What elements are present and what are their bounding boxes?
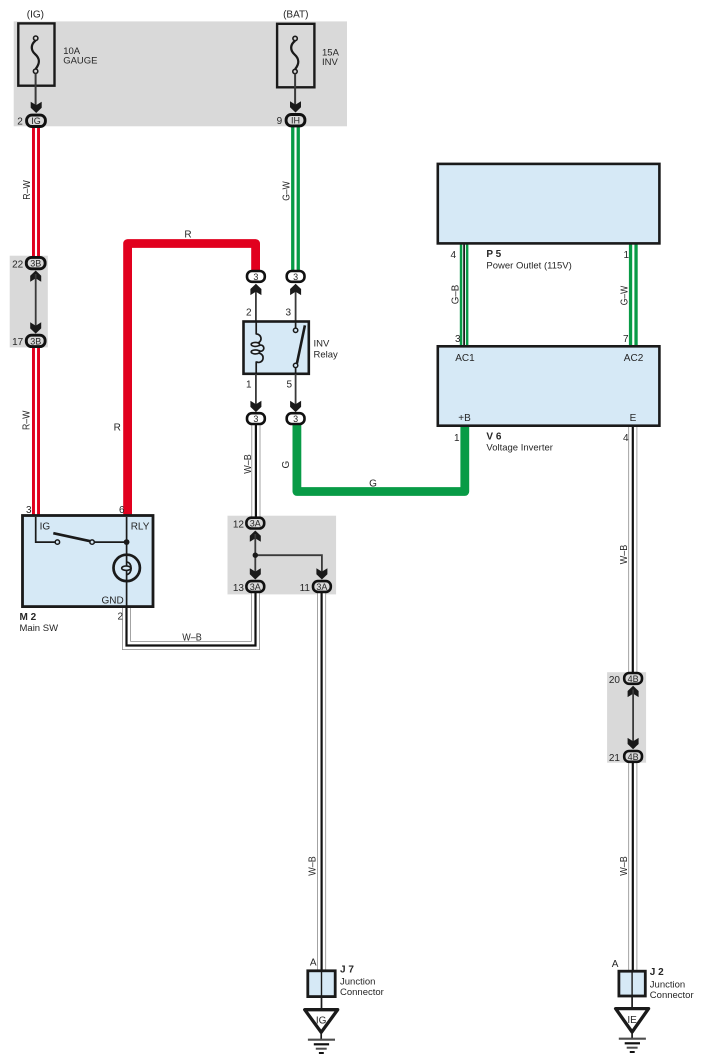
svg-text:Voltage Inverter: Voltage Inverter (486, 443, 553, 454)
wire W-B from connector 13 3A to Main SW pin 2 (127, 593, 256, 646)
svg-text:W–B: W–B (182, 632, 202, 643)
svg-text:(IG): (IG) (27, 10, 44, 21)
connector oval 9 IH (286, 115, 305, 126)
connector oval 20 4B (624, 673, 642, 684)
svg-text:6: 6 (119, 505, 125, 516)
svg-text:W–B: W–B (308, 856, 319, 876)
svg-text:3: 3 (455, 334, 461, 345)
svg-text:5: 5 (286, 380, 292, 391)
svg-text:A: A (310, 958, 317, 969)
connector oval 13 3A (246, 581, 264, 592)
svg-text:A: A (612, 959, 619, 970)
svg-text:G: G (369, 479, 377, 490)
arrowhead up below connector 20 (628, 686, 639, 697)
svg-text:1: 1 (454, 433, 460, 444)
arrowhead down into connector 17 (30, 322, 41, 333)
wire W-B from connector 11 3A down to junction connector J7 (317, 593, 326, 972)
svg-text:Main SW: Main SW (20, 623, 59, 634)
svg-text:3: 3 (293, 272, 298, 282)
svg-text:1: 1 (623, 250, 629, 261)
Main SW M2 box (23, 516, 154, 607)
arrowhead up below connector 22 (30, 271, 41, 282)
arrowhead up into connector 12 (250, 531, 261, 542)
svg-text:20: 20 (609, 675, 621, 686)
ground bars IG (320, 1032, 322, 1039)
svg-text:J 2: J 2 (650, 967, 664, 978)
junction connector J2 (619, 971, 645, 996)
relay U1 INV Relay box (244, 322, 309, 374)
svg-text:+B: +B (458, 413, 471, 424)
svg-text:2: 2 (117, 612, 123, 623)
gray connector box 4B (607, 672, 646, 763)
wire R thick from Main SW pin 6 to INV relay pin 2 connector (128, 244, 256, 517)
svg-text:(BAT): (BAT) (283, 10, 308, 21)
svg-text:G–B: G–B (450, 284, 461, 304)
svg-text:R–W: R–W (22, 180, 33, 200)
svg-text:J 7: J 7 (340, 965, 354, 976)
arrowhead down into connector 21 (628, 738, 639, 749)
connector oval 11 3A (313, 581, 331, 592)
svg-text:GAUGE: GAUGE (63, 56, 97, 67)
ground triangle IE (616, 1009, 649, 1032)
gray connector box 3B (10, 256, 48, 348)
svg-text:22: 22 (12, 259, 24, 270)
wire W-B from connector 21 4B down to junction connector J2 (628, 762, 637, 972)
svg-text:4B: 4B (628, 674, 639, 684)
lead J7 to ground (321, 997, 323, 1010)
wire W-B from INV relay pin 1 connector down to connector 12 3A (251, 424, 260, 517)
svg-text:E: E (630, 413, 637, 424)
svg-text:IG: IG (316, 1016, 327, 1027)
connector oval 3 above relay pin 2 (247, 271, 265, 282)
junction dot 3A (253, 553, 258, 558)
svg-text:4: 4 (450, 250, 456, 261)
connector oval 21 4B (624, 751, 642, 762)
wire R-W from fuse IG to connector 22 3B (32, 127, 40, 259)
svg-text:1: 1 (246, 380, 252, 391)
svg-text:21: 21 (609, 753, 621, 764)
arrowhead into connector IG (31, 102, 42, 113)
svg-text:G–W: G–W (281, 181, 292, 201)
relay coil (255, 323, 257, 335)
svg-text:3A: 3A (250, 519, 261, 529)
svg-text:7: 7 (623, 334, 629, 345)
svg-text:4B: 4B (628, 752, 639, 762)
connector oval 3 above relay pin 3 (287, 271, 305, 282)
junction dot (124, 539, 130, 545)
INV relay pin 3 lead and arrow (295, 287, 297, 322)
ground bars IE (631, 1032, 633, 1038)
svg-text:Junction: Junction (340, 976, 375, 987)
svg-text:IG: IG (31, 116, 41, 126)
connector oval 2 IG (27, 115, 46, 126)
svg-text:IG: IG (40, 522, 51, 533)
svg-text:R: R (114, 423, 121, 434)
svg-text:W–B: W–B (619, 856, 630, 876)
svg-text:12: 12 (233, 520, 245, 531)
wire R-W from connector 17 3B to Main SW pin 3 (32, 347, 40, 517)
arrowhead into connector IH (290, 101, 301, 112)
connector oval 3 below relay pin 1 (247, 413, 265, 424)
svg-text:INV: INV (322, 57, 339, 68)
svg-text:GND: GND (102, 595, 124, 606)
INV relay pin 5 lead and arrow (295, 374, 297, 407)
fuse F1 10A GAUGE (18, 23, 54, 85)
wire G thick from INV relay pin 5 connector to voltage inverter +B (297, 424, 465, 492)
svg-text:17: 17 (12, 337, 24, 348)
svg-text:3: 3 (26, 505, 32, 516)
lead from fuse F1 to connector IG (35, 73, 37, 107)
svg-text:3: 3 (285, 308, 291, 319)
wire G-B from power outlet pin 4 to voltage inverter AC1 pin 3 (460, 243, 469, 347)
lamp (114, 555, 140, 581)
gray connector box 3A (228, 516, 337, 595)
arrowhead down into connector 11 (316, 568, 327, 579)
svg-text:3: 3 (253, 272, 258, 282)
svg-text:AC1: AC1 (455, 353, 475, 364)
link line between 4B connectors (632, 690, 634, 745)
svg-text:3: 3 (253, 414, 258, 424)
svg-text:Connector: Connector (650, 990, 694, 1001)
svg-text:IE: IE (627, 1015, 637, 1026)
connector oval 17 3B (26, 335, 45, 346)
link line between 3B connectors (35, 274, 37, 329)
svg-text:3: 3 (293, 414, 298, 424)
svg-text:P 5: P 5 (486, 249, 501, 260)
svg-text:9: 9 (277, 116, 283, 127)
svg-text:W–B: W–B (619, 544, 630, 564)
svg-text:Junction: Junction (650, 980, 685, 991)
power outlet P5 box (438, 164, 660, 244)
svg-text:13: 13 (233, 583, 245, 594)
svg-text:W–B: W–B (243, 454, 254, 474)
svg-text:INV: INV (314, 339, 331, 350)
svg-text:Power Outlet (115V): Power Outlet (115V) (486, 260, 571, 271)
svg-text:3B: 3B (30, 336, 41, 346)
svg-text:2: 2 (17, 117, 23, 128)
svg-text:R: R (184, 230, 191, 241)
relay switch (295, 323, 297, 329)
arrowhead down into connector 13 (250, 568, 261, 579)
INV relay pin 1 lead and arrow (255, 374, 257, 407)
svg-text:G–W: G–W (619, 285, 630, 305)
gray harness band top (14, 21, 347, 126)
voltage inverter V6 box (438, 346, 660, 425)
junction connector J7 (308, 971, 335, 997)
lead J2 to ground (631, 996, 633, 1009)
svg-text:3A: 3A (316, 582, 327, 592)
svg-text:R–W: R–W (21, 410, 32, 430)
svg-text:G: G (281, 460, 292, 468)
svg-text:IH: IH (291, 116, 300, 126)
link lines 3A (255, 534, 322, 575)
svg-text:Relay: Relay (314, 350, 339, 361)
lead from fuse F2 to connector IH (294, 74, 296, 107)
switch internals (36, 517, 56, 542)
wire W-B from voltage inverter pin E down to connector 20 4B (628, 425, 637, 674)
svg-text:M 2: M 2 (20, 612, 37, 623)
fuse F2 15A INV (277, 24, 314, 88)
INV relay pin 2 lead and arrow (255, 287, 257, 322)
svg-text:RLY: RLY (131, 522, 150, 533)
svg-text:V 6: V 6 (486, 432, 501, 443)
svg-text:3A: 3A (250, 582, 261, 592)
svg-text:Connector: Connector (340, 987, 384, 998)
wire G-W from power outlet pin 1 to voltage inverter AC2 pin 7 (629, 243, 638, 347)
wire G-W from fuse BAT to INV relay pin 3 connector (291, 127, 300, 272)
svg-text:2: 2 (246, 308, 252, 319)
connector oval 12 3A (246, 518, 264, 529)
svg-text:4: 4 (623, 433, 629, 444)
svg-text:11: 11 (300, 583, 311, 594)
svg-text:AC2: AC2 (624, 353, 644, 364)
connector oval 22 3B (26, 257, 45, 268)
svg-text:3B: 3B (30, 259, 41, 269)
connector oval 3 below relay pin 5 (287, 413, 305, 424)
ground triangle IG (305, 1010, 338, 1033)
